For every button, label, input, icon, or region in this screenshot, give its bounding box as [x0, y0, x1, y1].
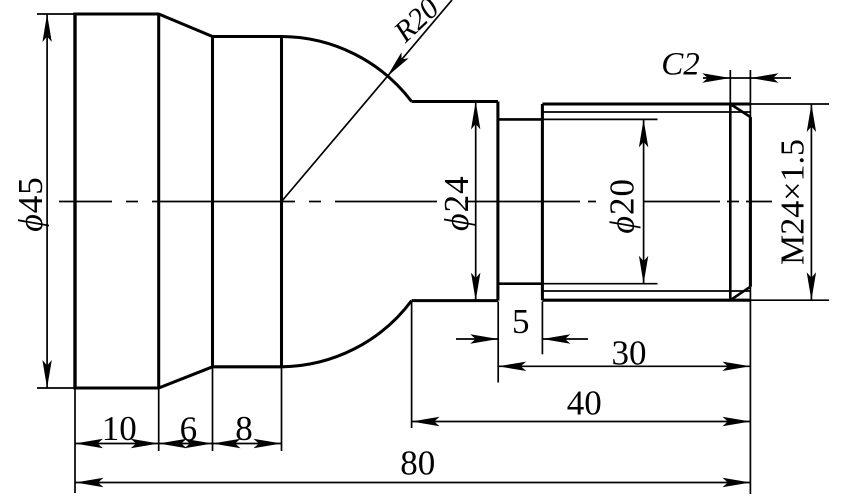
- svg-text:C2: C2: [661, 47, 700, 83]
- svg-text:ϕ24: ϕ24: [437, 175, 476, 231]
- svg-text:M24×1.5: M24×1.5: [775, 139, 812, 265]
- svg-text:80: 80: [400, 444, 435, 483]
- svg-text:40: 40: [567, 384, 602, 423]
- svg-text:ϕ45: ϕ45: [11, 176, 50, 232]
- svg-text:10: 10: [102, 409, 137, 448]
- svg-text:6: 6: [180, 410, 198, 449]
- svg-text:ϕ20: ϕ20: [603, 178, 642, 234]
- svg-text:5: 5: [512, 302, 530, 341]
- svg-text:30: 30: [612, 334, 647, 373]
- svg-text:8: 8: [235, 409, 253, 448]
